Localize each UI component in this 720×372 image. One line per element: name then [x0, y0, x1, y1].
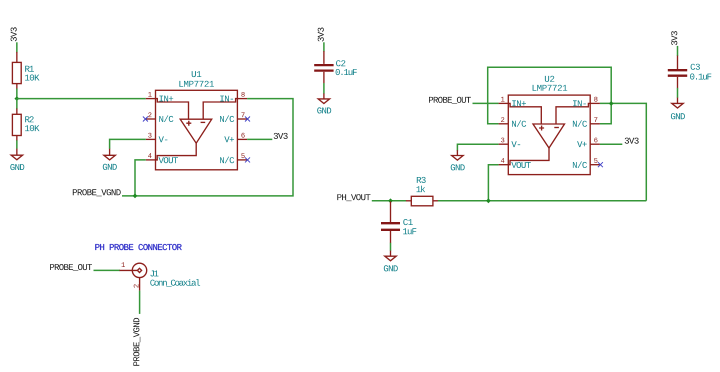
capacitor C2	[323, 51, 325, 64]
wire U2 guard ring pin2-pin7	[488, 67, 612, 124]
wire R1 to junction	[16, 89, 18, 99]
wire PROBE_OUT to J1 pin1	[94, 269, 121, 271]
label PROBE_OUT (to U2 pin1)	[429, 97, 471, 104]
ground (U2 pin3)	[456, 150, 458, 155]
resistor R3	[406, 200, 411, 202]
label PROBE_VGND (vertical)	[133, 318, 140, 366]
U2 pin 7 N/C	[590, 123, 600, 125]
U2 pin 5 N/C	[590, 164, 600, 166]
op-amp U2 body	[508, 95, 590, 175]
capacitor C1	[390, 201, 392, 222]
op-amp U1 reference	[192, 71, 202, 77]
junction node VOUT (U2 pin4)	[486, 198, 491, 203]
junction node U2 IN-/guard	[609, 101, 614, 106]
wire C1 to GND	[390, 243, 392, 251]
wire C2 to GND	[323, 83, 325, 94]
power label 3V3 (U2 pin6)	[625, 138, 639, 144]
label PROBE_OUT (to J1)	[50, 264, 92, 271]
wire 3V3 to R1	[16, 42, 18, 52]
junction node A (divider)	[14, 96, 19, 101]
U2 pin 4 VOUT	[499, 164, 509, 166]
power label 3V3 (U1 pin6)	[274, 133, 288, 139]
wire J1 pin2 down	[139, 291, 141, 314]
op-amp U2 value	[533, 85, 568, 91]
wire PROBE_OUT to U2 pin1	[473, 102, 499, 104]
U1 pin 7 N/C	[237, 118, 247, 120]
U1 pin 3 V-	[146, 138, 156, 140]
ground (under C2)	[323, 93, 325, 99]
wire U1 pin6 to 3V3	[247, 138, 272, 140]
connector J1	[120, 269, 138, 271]
resistor R2	[16, 109, 18, 115]
wire 3V3 to C3	[677, 46, 679, 56]
no-connect X U1 pin7	[245, 117, 250, 122]
no-connect X U2 pin5	[598, 162, 603, 167]
U1 pin 5 N/C	[237, 159, 247, 161]
label PH_VOUT	[337, 194, 370, 201]
capacitor C3	[677, 56, 679, 69]
junction node PROBE_VGND	[133, 194, 138, 199]
label PROBE_VGND	[73, 189, 121, 196]
U2 pin 1 IN+	[499, 102, 509, 104]
wire 3V3 to C2	[323, 42, 325, 51]
wire U1 pin3 to GND	[110, 139, 146, 149]
resistor R1	[16, 52, 18, 63]
wire junction to U1 pin1	[17, 98, 146, 100]
ground (under C3)	[677, 98, 679, 104]
power 3V3 (above C3)	[671, 31, 677, 45]
power 3V3 (above C2)	[318, 28, 324, 42]
U1 pin 1 IN+	[146, 98, 156, 100]
wire PROBE_VGND feedback to U1 pin8	[122, 99, 293, 196]
U2 pin 2 N/C	[499, 123, 509, 125]
U1 pin 8 IN-	[237, 98, 247, 100]
op-amp U1 body	[156, 90, 238, 170]
op-amp U2 reference	[545, 76, 554, 82]
wire U2 pin4 VOUT down	[488, 165, 498, 201]
wire junction to R2	[16, 99, 18, 110]
U2 pin 3 V-	[499, 143, 509, 145]
wire R2 to GND	[16, 140, 18, 149]
no-connect X U1 pin5	[245, 157, 250, 162]
wire PH_VOUT to R3	[372, 200, 407, 202]
wire R3 to VOUT node	[438, 200, 646, 202]
U1 pin 4 VOUT	[146, 159, 156, 161]
wire C3 to GND	[677, 88, 679, 98]
U1 pin 2 N/C	[146, 118, 156, 120]
ground (U1 pin3)	[109, 149, 111, 156]
no-connect X U1 pin2	[143, 117, 148, 122]
wire U1 pin4 VOUT down	[135, 160, 146, 196]
power 3V3 (top-left)	[11, 27, 17, 41]
wire U2 pin6 to 3V3	[600, 143, 622, 145]
U1 pin 6 V+	[237, 138, 247, 140]
wire U2 pin3 to GND	[457, 144, 498, 150]
junction node PH_VOUT/C1	[388, 198, 393, 203]
op-amp U1 value	[179, 81, 214, 87]
U2 pin 6 V+	[590, 143, 600, 145]
ground (under R2)	[16, 149, 18, 156]
text PH PROBE CONNECTOR	[95, 244, 181, 250]
U2 pin 8 IN-	[590, 102, 600, 104]
wire U2 pin8 feedback	[600, 103, 646, 200]
ground (under C1)	[390, 251, 392, 257]
